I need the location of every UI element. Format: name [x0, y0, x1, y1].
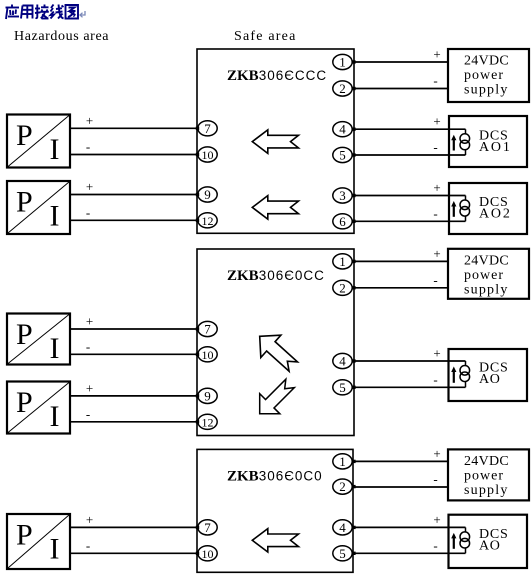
svg-text:supply: supply [464, 282, 509, 297]
svg-text:-: - [433, 206, 437, 221]
terminal 1 of U3 [333, 454, 352, 469]
svg-text:12: 12 [202, 214, 214, 228]
svg-text:24VDC: 24VDC [464, 253, 509, 268]
svg-text:Hazardous area: Hazardous area [14, 29, 109, 44]
wire T1+ to terminal [70, 113, 199, 129]
terminal 9 of U1 [198, 187, 217, 202]
DCS analog output box AO [449, 515, 528, 568]
wire U1.4 to AO1+ [352, 114, 466, 130]
wire T5- to terminal [70, 538, 199, 554]
24VDC power supply PS2 [448, 249, 529, 299]
svg-text:7: 7 [204, 520, 211, 535]
terminal 9 of U2 [198, 388, 217, 403]
terminal 7 of U3 [198, 520, 217, 535]
signal arrow U1 ch2 (left) [252, 196, 298, 220]
svg-text:+: + [433, 114, 440, 129]
terminal 5 of U2 [333, 380, 352, 395]
svg-text:7: 7 [204, 121, 211, 136]
svg-text:4: 4 [339, 520, 346, 535]
wire U3.5 to AO4- [352, 538, 466, 554]
svg-text:7: 7 [204, 322, 211, 337]
svg-text:9: 9 [204, 388, 211, 403]
terminal 2 of U2 [333, 280, 352, 295]
svg-text:+: + [86, 380, 93, 395]
svg-text:24VDC: 24VDC [464, 54, 509, 69]
terminal 7 of U2 [198, 321, 217, 336]
wire T5+ to terminal [70, 512, 199, 528]
wire T2- to terminal [70, 205, 199, 221]
svg-text:3: 3 [339, 188, 346, 203]
wire U2.1 to PS2+ [352, 246, 449, 262]
wire T4- to terminal [70, 406, 199, 422]
current loop symbol in AO1 [451, 129, 469, 155]
svg-text:P: P [16, 186, 33, 219]
svg-text:+: + [433, 346, 440, 361]
P/I transducer T2 [7, 181, 70, 234]
svg-text:-: - [86, 139, 90, 154]
svg-text:AO1: AO1 [479, 140, 512, 155]
svg-text:2: 2 [339, 479, 346, 494]
svg-text:+: + [433, 47, 440, 62]
svg-text:10: 10 [202, 348, 214, 362]
terminal 2 of U1 [333, 81, 352, 96]
wire T3+ to terminal [70, 314, 199, 330]
svg-text:-: - [433, 472, 437, 487]
isolator module U1 ZKB306ECCC [197, 49, 354, 233]
svg-text:I: I [50, 332, 60, 365]
svg-text:P: P [16, 519, 33, 552]
svg-text:I: I [50, 200, 60, 233]
svg-text:24VDC: 24VDC [464, 454, 509, 469]
wire T4+ to terminal [70, 380, 199, 396]
svg-text:P: P [16, 386, 33, 419]
wire T2+ to terminal [70, 179, 199, 195]
P/I transducer T1 [7, 115, 70, 168]
terminal 10 of U3 [198, 546, 217, 561]
terminal 6 of U1 [333, 214, 352, 229]
signal arrow U1 ch1 (left) [252, 130, 298, 154]
terminal 10 of U2 [198, 347, 217, 362]
svg-text:1: 1 [339, 55, 346, 70]
wire U1.2 to PS1- [352, 73, 449, 89]
wire T3- to terminal [70, 339, 199, 355]
svg-text:+: + [433, 512, 440, 527]
svg-text:power: power [464, 68, 504, 83]
24VDC power supply PS1 [448, 49, 529, 102]
junction dots at module borders [196, 60, 356, 555]
signal arrow U3 (left) [252, 529, 298, 553]
wire U3.1 to PS3+ [352, 446, 449, 462]
svg-text:-: - [86, 205, 90, 220]
svg-text:4: 4 [339, 122, 346, 137]
svg-text:+: + [433, 446, 440, 461]
svg-text:2: 2 [339, 81, 346, 96]
signal arrow U2 up-left [250, 325, 304, 378]
svg-text:9: 9 [204, 187, 211, 202]
terminal 2 of U3 [333, 479, 352, 494]
terminal 1 of U2 [333, 254, 352, 269]
P/I transducer T4 [7, 382, 70, 434]
svg-text:4: 4 [339, 354, 346, 369]
current loop symbol in AO [451, 527, 469, 553]
svg-text:supply: supply [464, 483, 509, 498]
svg-text:I: I [50, 400, 60, 433]
svg-text:ZKB306Є0CC: ZKB306Є0CC [227, 268, 325, 284]
svg-text:1: 1 [339, 254, 346, 269]
svg-text:-: - [86, 406, 90, 421]
svg-text:ZKB306Є0C0: ZKB306Є0C0 [227, 468, 323, 484]
wire U1.6 to AO2- [352, 206, 466, 222]
svg-text:10: 10 [202, 148, 214, 162]
svg-text:-: - [433, 272, 437, 287]
svg-text:+: + [86, 179, 93, 194]
svg-text:ZKB306ЄCCC: ZKB306ЄCCC [227, 68, 327, 84]
wire U1.1 to PS1+ [352, 47, 449, 63]
terminal 12 of U2 [198, 414, 217, 429]
wire U1.5 to AO1- [352, 140, 466, 156]
svg-text:-: - [433, 140, 437, 155]
svg-text:I: I [50, 133, 60, 166]
svg-text:P: P [16, 119, 33, 152]
svg-text:5: 5 [339, 148, 346, 163]
svg-text:AO: AO [479, 538, 501, 553]
svg-text:-: - [433, 372, 437, 387]
svg-text:6: 6 [339, 214, 346, 229]
signal arrow U2 down-left [250, 373, 301, 424]
svg-text:P: P [16, 318, 33, 351]
wire U1.3 to AO2+ [352, 180, 466, 196]
svg-text:-: - [86, 538, 90, 553]
terminal 10 of U1 [198, 147, 217, 162]
isolator module U2 ZKB306E0CC [197, 249, 354, 436]
terminal 4 of U2 [333, 353, 352, 368]
svg-text:+: + [86, 314, 93, 329]
wire U3.2 to PS3- [352, 472, 449, 488]
DCS analog output box AO1 [449, 116, 527, 167]
svg-text:-: - [86, 339, 90, 354]
title 应用接线图 (application wiring diagram), navy bold CJK [6, 5, 79, 20]
DCS analog output box AO [449, 349, 528, 401]
svg-text:12: 12 [202, 415, 214, 429]
terminal 1 of U1 [333, 54, 352, 69]
svg-text:supply: supply [464, 83, 509, 98]
terminal 12 of U1 [198, 213, 217, 228]
wire U2.4 to AO3+ [352, 346, 466, 362]
current loop symbol in AO [451, 361, 469, 387]
svg-text:-: - [433, 538, 437, 553]
svg-text:2: 2 [339, 280, 346, 295]
wire U3.4 to AO4+ [352, 512, 466, 528]
terminal 3 of U1 [333, 188, 352, 203]
svg-text:+: + [433, 180, 440, 195]
svg-text:I: I [50, 533, 60, 566]
24VDC power supply PS3 [448, 449, 529, 500]
wire U2.2 to PS2- [352, 272, 449, 288]
svg-text:AO2: AO2 [479, 207, 512, 222]
svg-text:-: - [433, 73, 437, 88]
isolator module U3 ZKB306E0C0 [197, 449, 353, 572]
terminal 5 of U1 [333, 147, 352, 162]
terminal 4 of U3 [333, 520, 352, 535]
terminal 5 of U3 [333, 546, 352, 561]
svg-text:+: + [86, 512, 93, 527]
P/I transducer T3 [7, 314, 70, 366]
paragraph return mark [80, 11, 85, 17]
svg-text:1: 1 [339, 454, 346, 469]
svg-text:power: power [464, 268, 504, 283]
svg-text:+: + [86, 113, 93, 128]
terminal 4 of U1 [333, 122, 352, 137]
svg-text:power: power [464, 468, 504, 483]
svg-text:Safe area: Safe area [234, 29, 296, 44]
terminal 7 of U1 [198, 121, 217, 136]
DCS analog output box AO2 [449, 183, 527, 234]
P/I transducer T5 [7, 514, 70, 569]
svg-text:5: 5 [339, 380, 346, 395]
current loop symbol in AO2 [451, 196, 469, 222]
svg-text:5: 5 [339, 546, 346, 561]
svg-text:AO: AO [479, 372, 501, 387]
wire T1- to terminal [70, 139, 199, 155]
svg-text:+: + [433, 246, 440, 261]
svg-text:10: 10 [202, 547, 214, 561]
wire U2.5 to AO3- [352, 372, 466, 388]
